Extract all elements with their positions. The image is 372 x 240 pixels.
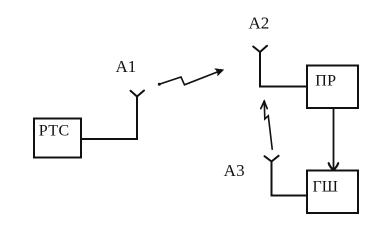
- antenna A3: [265, 156, 279, 167]
- box ПР (receiver) U2: [307, 66, 358, 109]
- antenna A1: [131, 91, 145, 104]
- box ГШ (noise generator) U3: [307, 171, 358, 214]
- svg-text:А2: А2: [249, 14, 270, 33]
- wave arrow from A3 upward: [261, 101, 273, 150]
- antenna A2: [253, 46, 267, 58]
- wave arrow from A1 to A2: [158, 69, 224, 86]
- svg-text:РТС: РТС: [39, 123, 70, 140]
- svg-text:ПР: ПР: [315, 73, 336, 90]
- wire from antenna A2 to ПР: [260, 52, 306, 87]
- svg-text:ГШ: ГШ: [313, 179, 338, 196]
- svg-text:А1: А1: [116, 57, 137, 76]
- arrow wire from ПР to ГШ: [329, 108, 339, 170]
- box РТС (radio system) U1: [34, 119, 81, 158]
- svg-text:А3: А3: [224, 161, 245, 180]
- wire from ГШ to antenna A3: [272, 161, 308, 196]
- wire from РТС to antenna A1: [81, 97, 137, 139]
